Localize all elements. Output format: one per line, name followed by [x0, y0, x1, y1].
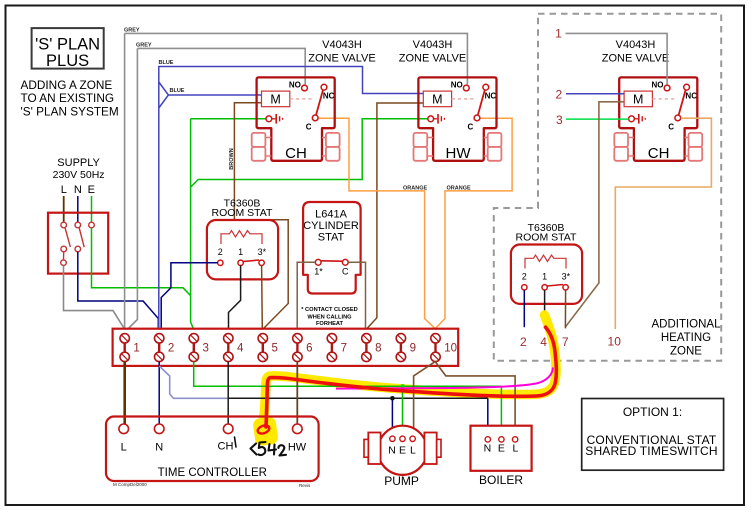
svg-text:'S' PLAN: 'S' PLAN [35, 35, 100, 53]
pump right tab [424, 433, 436, 465]
svg-text:BOILER: BOILER [479, 473, 523, 487]
pump body circle [378, 426, 427, 475]
wire green CH valve earth [191, 118, 266, 120]
wire green earth bus to pump and boiler [194, 362, 502, 387]
svg-text:N: N [155, 442, 163, 454]
wire grey HW valve NO to terminal 1 [125, 33, 468, 84]
svg-text:ADDITIONAL: ADDITIONAL [651, 319, 721, 331]
wire grey zone valve 3 NO [566, 33, 668, 84]
wire green boiler E drop [500, 386, 502, 436]
supply terminal E [89, 222, 95, 228]
svg-text:9: 9 [410, 343, 416, 355]
svg-text:OPTION 1:: OPTION 1: [623, 405, 682, 419]
wire black terminal 4 to controller CH [227, 362, 229, 424]
zone valve V2 HW [414, 77, 502, 160]
wire blue zone valve 3 motor [566, 93, 624, 95]
svg-text:ORANGE: ORANGE [447, 185, 471, 191]
svg-text:CH: CH [648, 145, 670, 162]
supply terminal N [75, 222, 81, 228]
svg-text:N: N [74, 184, 82, 196]
svg-text:E: E [399, 445, 406, 457]
wire green supply earth down-right to earth bus [92, 228, 191, 296]
room stat RS2 T6360B (additional zone) [511, 222, 582, 304]
junction dot neutral bus [390, 396, 395, 401]
room stat RS1 T6360B [207, 197, 278, 279]
svg-text:SUPPLY: SUPPLY [57, 157, 100, 169]
svg-text:3: 3 [556, 113, 563, 127]
wire navy room stat 2 terminal 2 [523, 290, 525, 327]
zone valve V1 CH [252, 77, 340, 160]
wire green earth bus vertical to terminal 3 [191, 119, 194, 329]
wire black room stat 1 terminal 1 to terminal 4 [229, 266, 241, 329]
red hand-drawn loop at CH terminal [257, 424, 271, 435]
svg-text:Revis: Revis [299, 483, 311, 488]
wire blue CH valve motor branch [159, 82, 169, 108]
svg-text:ZONE VALVE: ZONE VALVE [308, 52, 375, 64]
controller terminal L [119, 424, 129, 434]
svg-text:M CompDel2000: M CompDel2000 [113, 482, 147, 487]
svg-text:ZONE VALVE: ZONE VALVE [399, 52, 466, 64]
supply lower contact L [61, 246, 67, 252]
svg-text:GREY: GREY [124, 28, 140, 34]
svg-text:V4043H: V4043H [413, 39, 453, 51]
strip terminal 7 [327, 334, 347, 362]
svg-text:2: 2 [520, 335, 527, 349]
strip terminal 6 [293, 334, 313, 362]
svg-text:1: 1 [133, 343, 139, 355]
dashed additional zone boundary [494, 14, 721, 361]
wire black neutral bus to pump and boiler [228, 397, 488, 399]
svg-text:E: E [498, 443, 505, 455]
wire navy room stat 1 terminal 2 to terminal 2 [161, 263, 217, 329]
svg-text:CH: CH [285, 145, 307, 162]
svg-text:SHARED TIMESWITCH: SHARED TIMESWITCH [585, 444, 718, 458]
wire brown HW valve motor live to terminal 8 [367, 103, 423, 329]
svg-text:4: 4 [237, 343, 244, 355]
controller terminal HW [293, 424, 303, 434]
terminal strip block [113, 329, 459, 366]
wire grey supply switched-live down-right to terminal 1 [64, 266, 125, 329]
svg-text:V4043H: V4043H [616, 39, 656, 51]
svg-text:TIME CONTROLLER: TIME CONTROLLER [158, 467, 267, 479]
wire brown CH valve motor live to terminal 5 [234, 103, 288, 329]
strip terminal 5 [258, 334, 278, 362]
svg-text:10: 10 [608, 335, 622, 349]
wire grey CH valve NO to terminal 1 [137, 48, 305, 84]
svg-text:10: 10 [444, 343, 457, 355]
controller terminal N [154, 424, 164, 434]
wire brown cylinder stat C to terminal 8 [348, 262, 365, 328]
svg-text:'S' PLAN SYSTEM: 'S' PLAN SYSTEM [21, 105, 119, 119]
svg-text:L: L [121, 442, 127, 454]
svg-text:N: N [388, 445, 396, 457]
boiler terminals N E L [485, 437, 490, 442]
wire orange HW valve C to terminal 10 [435, 118, 512, 328]
svg-text:PUMP: PUMP [384, 474, 419, 488]
cylinder stat lever [321, 260, 343, 262]
svg-text:E: E [88, 184, 95, 196]
svg-text:L: L [410, 445, 416, 457]
option box [582, 399, 724, 471]
svg-text:ORANGE: ORANGE [403, 185, 427, 191]
magenta marker line [336, 368, 553, 389]
title box 'S' PLAN PLUS [32, 28, 104, 69]
strip terminal 3 [189, 334, 209, 362]
zone valve V3 CH (additional zone) [614, 77, 702, 160]
wire supply L brown lead [63, 196, 65, 222]
svg-text:7: 7 [562, 335, 569, 349]
svg-text:CYLINDER: CYLINDER [303, 220, 359, 232]
pump left tab [368, 433, 380, 465]
svg-text:WHEN CALLING: WHEN CALLING [307, 315, 352, 321]
svg-text:L641A: L641A [315, 209, 347, 221]
wire violet neutral feed from terminal 2 [159, 366, 228, 398]
svg-text:3: 3 [203, 343, 209, 355]
wire green zone valve 3 earth [566, 118, 629, 120]
svg-text:FORHEAT: FORHEAT [316, 321, 344, 327]
yellow highlighter blob at CH terminal [252, 416, 279, 446]
wire black room stat 2 terminal 1 [544, 290, 546, 328]
wire navy terminal 2 to controller N [158, 362, 160, 424]
wire brown terminal 10 to pump L [414, 362, 436, 436]
wire supply E green lead [91, 196, 93, 222]
wire supply N blue lead [77, 196, 79, 222]
wire orange zone valve 3 C to label 10 [615, 118, 711, 329]
supply switch lever N [79, 228, 84, 248]
svg-text:ZONE: ZONE [670, 346, 702, 358]
svg-text:N: N [484, 443, 492, 455]
svg-text:HW: HW [446, 145, 472, 162]
cylinder stat contact 1* [315, 259, 321, 265]
svg-text:BLUE: BLUE [159, 60, 174, 66]
yellow highlighter band [262, 315, 556, 432]
svg-text:1: 1 [555, 27, 562, 41]
strip terminal 8 [362, 334, 382, 362]
handwritten 1 after CH [235, 437, 237, 447]
wire brown terminal 1 to controller L [123, 362, 126, 424]
time controller box [106, 417, 319, 482]
supply isolator box [48, 213, 108, 274]
svg-text:* CONTACT CLOSED: * CONTACT CLOSED [301, 307, 357, 313]
svg-text:TO AN EXISTING: TO AN EXISTING [21, 91, 115, 105]
handwritten 542 [251, 442, 287, 456]
svg-text:HEATING: HEATING [661, 332, 711, 344]
wire brown cylinder stat 1* to terminal 6 [297, 262, 315, 328]
wire orange CH valve C to terminal 10 [318, 118, 435, 328]
wire blue HW valve motor to terminal 2 [159, 67, 423, 329]
cylinder stat L641A body [303, 202, 361, 294]
strip terminal 2 [155, 334, 175, 362]
strip terminal 10 [431, 334, 457, 362]
wire green HW valve earth [198, 119, 428, 180]
wire green pump E drop [402, 386, 404, 436]
pump terminals N E L [390, 436, 395, 441]
supply lower contact N [75, 246, 81, 252]
svg-text:CH: CH [218, 441, 234, 453]
wire brown terminal 6 to controller HW [296, 362, 298, 424]
svg-text:BLUE: BLUE [170, 88, 185, 94]
svg-text:ADDING A ZONE: ADDING A ZONE [21, 78, 113, 92]
svg-text:230V 50Hz: 230V 50Hz [53, 169, 105, 181]
supply fuse link [63, 252, 65, 260]
svg-text:HW: HW [288, 442, 307, 454]
wire navy boiler N drop [487, 398, 489, 436]
svg-text:6: 6 [306, 343, 312, 355]
supply terminal L [61, 222, 67, 228]
strip terminal 9 [396, 334, 416, 362]
svg-text:GREY: GREY [136, 43, 152, 49]
cylinder stat contact C [342, 259, 348, 265]
svg-text:4: 4 [540, 335, 547, 349]
svg-text:2: 2 [556, 87, 563, 101]
svg-text:L: L [61, 184, 67, 196]
supply fuse contact [61, 260, 67, 266]
red hand-drawn wire [266, 327, 556, 427]
svg-text:2: 2 [168, 343, 174, 355]
controller terminal CH [223, 424, 233, 434]
supply switch lever L [65, 228, 70, 247]
strip terminal 4 [224, 334, 244, 362]
svg-text:C: C [342, 267, 349, 277]
wire navy pump N drop [391, 398, 393, 436]
strip terminal 1 [120, 334, 140, 362]
svg-text:8: 8 [375, 343, 381, 355]
svg-text:7: 7 [341, 343, 347, 355]
svg-text:L: L [512, 443, 518, 455]
svg-text:STAT: STAT [318, 232, 345, 244]
boiler box [471, 426, 532, 471]
svg-text:V4043H: V4043H [322, 39, 362, 51]
svg-text:ZONE VALVE: ZONE VALVE [602, 52, 669, 64]
wire navy supply neutral down-right to terminal 2 [78, 252, 159, 329]
svg-text:1*: 1* [314, 267, 323, 277]
wire brown room stat 2 terminal 3 [564, 290, 566, 328]
wire brown zone valve 3 motor live to label 7 [565, 102, 624, 327]
wire brown room stat 1 terminal 3 to terminal 5 [261, 266, 264, 329]
junction green earth [401, 384, 404, 388]
svg-text:5: 5 [272, 343, 278, 355]
svg-text:PLUS: PLUS [46, 52, 89, 70]
wire brown terminal 10 to boiler L [435, 362, 515, 437]
